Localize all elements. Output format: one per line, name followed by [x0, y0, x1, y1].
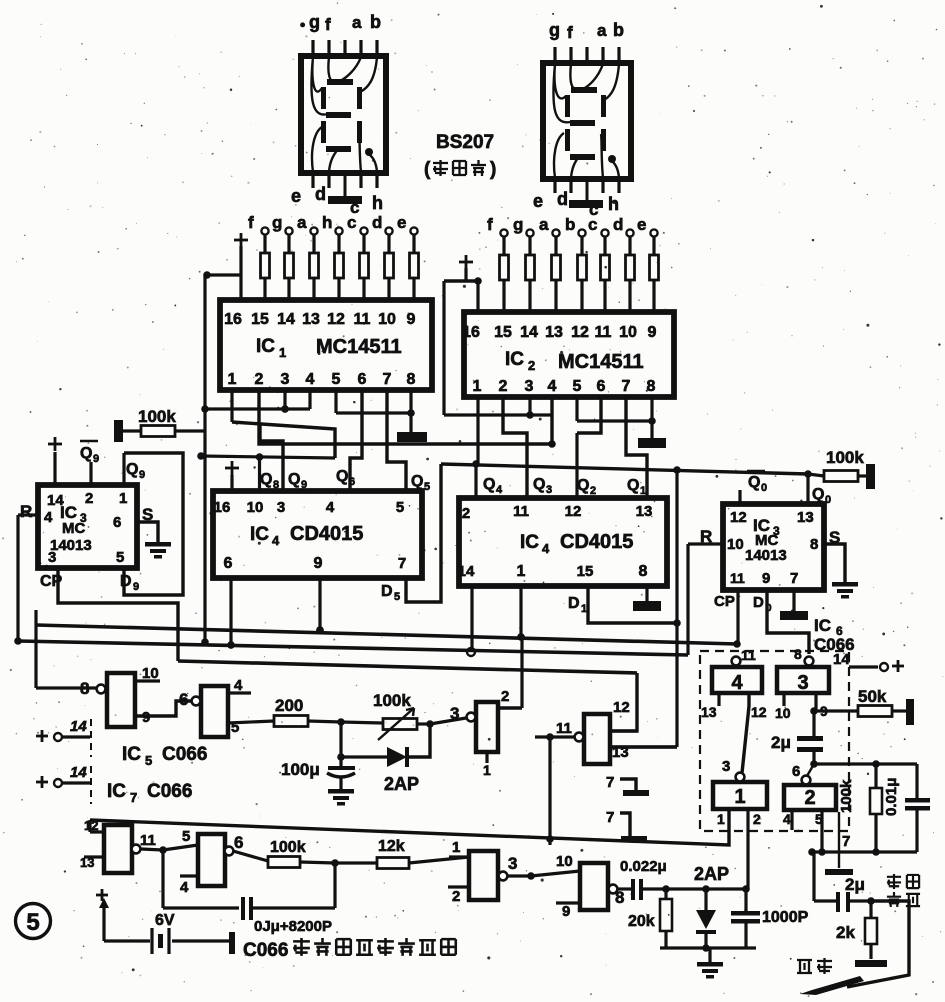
svg-text:100k: 100k [270, 839, 306, 856]
svg-text:C066: C066 [162, 744, 207, 765]
svg-text:3: 3 [450, 704, 459, 723]
svg-text:D: D [753, 594, 764, 611]
svg-text:IC: IC [250, 524, 269, 545]
svg-text:1: 1 [119, 490, 127, 507]
gate IC7a body [90, 830, 104, 833]
svg-text:3: 3 [797, 672, 808, 694]
DS2 top pins [553, 47, 556, 64]
svg-text:2μ: 2μ [845, 875, 865, 894]
svg-text:12: 12 [327, 311, 345, 328]
svg-text:MC: MC [62, 520, 85, 537]
probe symbol (Chinese label + tip) [797, 960, 812, 973]
IC3b /Q0 pin12 stub [738, 490, 741, 504]
svg-text:a: a [539, 215, 549, 234]
svg-text:e: e [637, 215, 646, 234]
svg-text:16: 16 [214, 499, 231, 516]
svg-text:16: 16 [224, 311, 242, 328]
wire IC2 pin6 to Q2 [577, 396, 601, 433]
svg-text:14: 14 [277, 311, 295, 328]
svg-text:Q: Q [748, 474, 760, 491]
svg-text:12: 12 [751, 704, 767, 720]
svg-text:2: 2 [804, 787, 815, 809]
svg-text:12: 12 [730, 509, 747, 526]
svg-text:13: 13 [701, 704, 717, 720]
svg-text:1: 1 [734, 786, 745, 808]
IC5c pin1 stub [485, 752, 488, 763]
svg-text:MC14511: MC14511 [558, 351, 644, 373]
svg-text:20k: 20k [628, 913, 655, 930]
ground under IC2 pin8 [650, 421, 653, 438]
svg-text:Q: Q [126, 461, 138, 478]
segment resistor R1a (f) above IC1 [261, 227, 268, 234]
IC6 dashed boundary box [700, 651, 849, 831]
svg-text:9: 9 [133, 581, 139, 593]
svg-text:1000P: 1000P [762, 909, 809, 926]
svg-text:13: 13 [545, 324, 563, 341]
svg-text:e: e [533, 191, 543, 211]
svg-text:2AP: 2AP [384, 774, 419, 794]
svg-text:(: ( [424, 159, 431, 180]
rail from C2 node to filters [814, 762, 876, 765]
capacitor C4 0.1u+8200P osc feedback [161, 850, 164, 908]
terminal +14 (IC5 pin14) [36, 735, 48, 738]
svg-text:5: 5 [573, 378, 582, 395]
svg-text:13: 13 [80, 855, 94, 870]
wire VR node to gate IC5c [430, 718, 466, 724]
svg-text:15: 15 [251, 311, 269, 328]
wire bus B to IC5a pin8 [36, 686, 96, 689]
svg-text:10: 10 [247, 499, 264, 516]
svg-text:16: 16 [462, 324, 480, 341]
svg-text:4: 4 [731, 672, 743, 694]
DS2 internal lead curves [553, 64, 619, 122]
svg-text:b: b [565, 215, 575, 234]
svg-text:9: 9 [314, 555, 323, 572]
svg-text:100k: 100k [373, 691, 411, 710]
svg-text:4: 4 [234, 677, 243, 694]
IC6-3 pin10 stub [782, 693, 785, 706]
svg-text:11: 11 [140, 832, 156, 849]
IC U4b (IC4 CD4015 right) body [459, 498, 667, 586]
junction IC5d riser on IC7 bus [546, 835, 554, 843]
IC3a pin2 /Q9 input [89, 462, 92, 485]
svg-text:1: 1 [473, 378, 482, 395]
svg-text:6V: 6V [155, 912, 175, 929]
ground under IC1 pin8 [409, 413, 412, 432]
segment resistor R1e (c) above IC1 [360, 227, 367, 234]
svg-text:8: 8 [615, 888, 624, 907]
svg-text:4: 4 [306, 371, 315, 388]
svg-text:IC: IC [107, 781, 126, 802]
svg-text:7: 7 [790, 570, 798, 587]
svg-text:0.022μ: 0.022μ [620, 858, 667, 875]
svg-text:15: 15 [494, 324, 512, 341]
segment resistor R1c (a) above IC1 [310, 227, 317, 234]
IC3a Q9 feedback loop pin1 to pin5 D9 [122, 453, 125, 485]
IC5d input riser from IC7 bus [548, 737, 551, 845]
svg-text:CP: CP [714, 593, 735, 610]
svg-text:4: 4 [44, 509, 53, 526]
svg-text:f: f [325, 15, 331, 34]
DS1 common-cathode ground [344, 172, 347, 196]
svg-text:5: 5 [26, 909, 39, 936]
battery B1 6V [96, 894, 108, 897]
svg-text:h: h [608, 194, 619, 214]
IC1 Vdd + terminal [234, 239, 248, 242]
svg-text:10: 10 [378, 311, 396, 328]
wire IC2 pins3,4 +V link [444, 413, 552, 416]
svg-text:Q: Q [411, 473, 423, 490]
svg-text:f: f [248, 213, 254, 232]
IC4a + terminal above pin16 [225, 467, 239, 470]
svg-text:C066: C066 [243, 940, 288, 961]
DS1 top pins [311, 40, 314, 57]
wire IC7 feedback long bus [90, 809, 729, 845]
svg-text:14: 14 [458, 563, 475, 580]
svg-text:3: 3 [48, 549, 56, 566]
svg-text:Q: Q [533, 476, 545, 493]
svg-text:1: 1 [452, 839, 460, 856]
svg-text:8: 8 [647, 378, 656, 395]
svg-text:f: f [567, 23, 573, 42]
segment resistor R2f (d) above IC2 [626, 229, 633, 236]
svg-text:200: 200 [275, 696, 303, 715]
ground rail bottom [660, 946, 756, 949]
7-segment display DS1 (BS207) body [301, 56, 386, 173]
svg-text:CD4015: CD4015 [560, 531, 633, 553]
svg-text:a: a [597, 21, 607, 40]
svg-text:IC: IC [814, 616, 831, 635]
svg-text:11: 11 [354, 311, 371, 328]
IC3b Q0 pin13 stub to data line [806, 474, 809, 504]
svg-text:9: 9 [139, 469, 145, 481]
svg-text:8: 8 [810, 536, 818, 553]
svg-text:): ) [490, 159, 496, 180]
svg-text:IC: IC [520, 532, 539, 553]
svg-text:13: 13 [797, 509, 814, 526]
svg-text:8: 8 [639, 563, 648, 580]
svg-text:5: 5 [145, 753, 152, 768]
svg-text:2: 2 [753, 811, 761, 827]
wire trunk Q0 to gate D pin13 [675, 470, 678, 747]
segment resistor R2a (f) above IC2 [500, 229, 507, 236]
svg-text:10: 10 [619, 324, 637, 341]
gate IC5b body [201, 686, 228, 737]
svg-text:10: 10 [775, 705, 791, 721]
svg-text:3: 3 [508, 854, 517, 873]
IC5a pin10 stub [135, 679, 160, 682]
svg-text:6: 6 [349, 476, 355, 488]
svg-text:b: b [613, 20, 624, 40]
svg-text:12k: 12k [378, 838, 405, 855]
svg-text:9: 9 [93, 453, 99, 465]
svg-text:9: 9 [762, 570, 770, 587]
svg-text:2: 2 [499, 378, 508, 395]
svg-text:2: 2 [501, 688, 509, 705]
svg-text:0: 0 [825, 494, 831, 506]
DS1 bottom pins [311, 172, 314, 188]
svg-text:100μ: 100μ [281, 760, 320, 779]
DS1 segments [327, 79, 353, 85]
svg-text:4: 4 [180, 879, 189, 896]
svg-text:4: 4 [272, 533, 280, 548]
wire CD4015 IC4a pin10 (Q8) stub [258, 457, 261, 491]
IC4b pin1 clock stub [519, 586, 522, 637]
svg-text:4: 4 [326, 499, 335, 516]
svg-text:CD4015: CD4015 [290, 523, 363, 545]
segment resistor R1d (h) above IC1 [335, 227, 342, 234]
IC5b pin4 stub [228, 691, 251, 694]
svg-text:2μ: 2μ [771, 733, 791, 752]
wire reset bus down from 100k node [203, 457, 206, 642]
svg-text:Q: Q [483, 476, 495, 493]
ground rail lower right [812, 850, 917, 853]
svg-text:d: d [372, 213, 382, 232]
svg-text:g: g [272, 213, 282, 232]
svg-text:1: 1 [717, 811, 725, 827]
svg-text:10: 10 [556, 853, 573, 870]
7-segment display DS2 (BS207) body [543, 63, 631, 179]
wire IC2 pin2 to Q3 [503, 396, 527, 498]
wire 100k reset node horizontal [201, 456, 335, 458]
svg-text:2: 2 [462, 505, 470, 522]
svg-text:6: 6 [792, 763, 800, 780]
wire bus D (CP chain) [178, 661, 637, 673]
svg-text:1: 1 [483, 762, 491, 778]
svg-text:Q: Q [288, 471, 300, 488]
svg-text:8: 8 [407, 371, 416, 388]
IC3b pin7 grounded [792, 590, 795, 611]
svg-text:1: 1 [279, 345, 286, 360]
IC6-2 pin5 riser [820, 810, 823, 852]
svg-text:11: 11 [741, 647, 756, 663]
svg-text:7: 7 [130, 790, 137, 805]
svg-text:10: 10 [142, 665, 159, 682]
page number 5 circled [16, 904, 51, 939]
svg-text:5: 5 [424, 481, 430, 493]
gate IC6-3 body [777, 667, 829, 693]
svg-text:1: 1 [228, 371, 237, 388]
svg-text:100k: 100k [838, 779, 855, 813]
IC U3a (IC3 MC14013 left) body [38, 485, 137, 568]
svg-text:C066: C066 [147, 781, 192, 802]
svg-text:2: 2 [452, 888, 460, 905]
DS2 bottom pins [553, 178, 556, 193]
svg-text:12: 12 [84, 818, 98, 833]
svg-text:9: 9 [407, 311, 416, 328]
svg-text:f: f [487, 215, 493, 234]
svg-text:Q: Q [260, 471, 272, 488]
svg-text:1: 1 [517, 563, 526, 580]
svg-text:0: 0 [761, 482, 767, 494]
svg-text:7: 7 [398, 555, 406, 572]
gate IC6-2 body [784, 785, 836, 810]
svg-text:2: 2 [255, 371, 264, 388]
gate IC7b body [163, 845, 198, 850]
svg-text:5: 5 [396, 499, 404, 516]
wire IC1 pin2 +V crosslink to IC2 pins 3,4 [259, 390, 552, 444]
svg-text:5: 5 [182, 828, 190, 845]
svg-text:4: 4 [542, 541, 550, 556]
svg-text:IC: IC [122, 744, 141, 765]
svg-text:6: 6 [358, 371, 367, 388]
svg-text:12: 12 [571, 324, 589, 341]
svg-text:d: d [315, 184, 326, 204]
svg-text:11: 11 [513, 503, 529, 520]
svg-text:6: 6 [179, 690, 188, 709]
gate IC7c body [449, 855, 469, 858]
svg-text:8: 8 [794, 646, 802, 662]
svg-text:9: 9 [648, 324, 657, 341]
DS2 common-cathode ground [586, 178, 589, 201]
svg-text:5: 5 [332, 371, 341, 388]
svg-text:2: 2 [85, 490, 93, 507]
svg-text:3: 3 [281, 371, 290, 388]
svg-text:7: 7 [383, 371, 392, 388]
svg-text:6: 6 [113, 514, 121, 531]
svg-text:6: 6 [597, 378, 606, 395]
wire left +V bus of IC1 [203, 275, 206, 457]
wire IC2 pin16 supply loop [444, 279, 478, 282]
IC2 Vdd + terminal [459, 261, 473, 264]
svg-text:6: 6 [224, 555, 233, 572]
svg-text:7: 7 [622, 378, 631, 395]
segment resistor R2g (e) above IC2 [650, 229, 657, 236]
svg-text:2: 2 [528, 358, 535, 373]
svg-text:4: 4 [496, 484, 503, 496]
svg-text:10: 10 [727, 536, 744, 553]
svg-text:IC: IC [256, 336, 275, 357]
DS1 internal lead curves [311, 57, 377, 115]
wire IC1 pin6 to Q6 [350, 390, 362, 491]
svg-text:7: 7 [606, 774, 614, 791]
svg-text:50k: 50k [858, 687, 887, 706]
svg-text:e: e [397, 213, 406, 232]
IC4a pin9 clock stub [318, 578, 321, 630]
svg-text:Q: Q [577, 477, 589, 494]
svg-text:3: 3 [722, 758, 730, 775]
svg-text:5: 5 [116, 549, 124, 566]
IC6-2 pin4 stub [790, 810, 793, 830]
svg-text:g: g [513, 215, 523, 234]
segment resistor R2d (b) above IC2 [578, 229, 585, 236]
wire IC1 pin16 to left bus [205, 273, 241, 276]
IC U4a (IC4 CD4015 left) body [213, 491, 422, 578]
svg-text:5: 5 [815, 811, 823, 827]
segment resistor R2e (c) above IC2 [601, 229, 608, 236]
segment resistor R1g (e) above IC1 [410, 227, 417, 234]
svg-text:11: 11 [595, 324, 612, 341]
svg-text:15: 15 [577, 563, 594, 580]
svg-text:Q: Q [812, 486, 824, 503]
svg-text:h: h [372, 193, 383, 213]
terminal +14 (IC7 pin14) [36, 781, 48, 784]
svg-text:14: 14 [70, 718, 87, 735]
wire to probe [847, 901, 909, 987]
svg-text:12: 12 [565, 503, 582, 520]
IC U1 (IC1 MC14511) body [220, 300, 432, 390]
svg-text:13: 13 [302, 311, 320, 328]
svg-text:14: 14 [520, 324, 538, 341]
wire bus C (reset net) [18, 641, 688, 655]
svg-text:D: D [568, 595, 580, 612]
svg-text:D: D [120, 573, 132, 590]
svg-text:8: 8 [273, 479, 279, 491]
IC4b Q4 stub to data line [474, 464, 477, 498]
svg-text:0Jμ+8200P: 0Jμ+8200P [254, 918, 332, 935]
svg-text:14: 14 [70, 764, 87, 781]
svg-text:9: 9 [562, 903, 570, 920]
svg-text:1: 1 [640, 485, 646, 497]
svg-text:Q: Q [80, 445, 92, 462]
svg-text:7: 7 [842, 833, 850, 850]
gate IC6-1 body [713, 782, 767, 809]
svg-text:6: 6 [234, 833, 243, 852]
wire IC2 pin1 to Q4 node [476, 396, 479, 464]
gate IC6-4 body [712, 667, 762, 693]
IC4b pin14 reset stub with terminal [470, 586, 473, 648]
svg-text:1: 1 [581, 603, 587, 615]
svg-text:a: a [297, 213, 307, 232]
svg-text:IC: IC [505, 349, 524, 370]
svg-text:•: • [300, 17, 305, 34]
IC6-4 pin13 stub [717, 693, 720, 706]
wire IC2 pin7 to Q1 [626, 396, 647, 498]
svg-text:c: c [347, 213, 356, 232]
gate IC5c body [476, 702, 498, 752]
segment resistor R2c (a) above IC2 [552, 229, 559, 236]
wire data line Q4/D5/Q0 [441, 464, 808, 474]
segment resistor R2b (g) above IC2 [526, 229, 533, 236]
svg-text:a: a [352, 13, 362, 32]
svg-text:d: d [557, 189, 568, 209]
segment resistor R1b (g) above IC1 [285, 227, 292, 234]
IC U2 (IC2 MC14511) body [464, 312, 674, 397]
label signal input (Chinese) [887, 874, 901, 889]
svg-text:100k: 100k [138, 407, 176, 426]
wire IC2 pin5+pin8 ground link [575, 396, 578, 421]
ground under IC4b pin8 [645, 586, 648, 601]
segment resistor R1f (d) above IC1 [385, 227, 392, 234]
gate IC5a body [107, 673, 135, 727]
svg-text:4: 4 [783, 811, 791, 827]
svg-text:d: d [613, 215, 623, 234]
svg-text:c: c [588, 215, 597, 234]
svg-text:h: h [322, 213, 332, 232]
svg-text:5: 5 [394, 591, 400, 603]
IC U3b (IC3 MC14013 right) body [723, 504, 824, 590]
wire pin3 tap (Q9) jog [260, 424, 283, 491]
svg-text:3: 3 [546, 484, 552, 496]
svg-text:12: 12 [613, 699, 630, 716]
gate IC5d body [584, 714, 610, 764]
svg-text:100k: 100k [826, 448, 864, 467]
svg-text:14013: 14013 [745, 547, 787, 564]
svg-text:MC14511: MC14511 [316, 336, 402, 358]
svg-text:Q: Q [336, 468, 348, 485]
svg-text:Q: Q [627, 477, 639, 494]
svg-text:g: g [309, 12, 320, 32]
svg-text:2k: 2k [836, 923, 855, 942]
svg-text:2AP: 2AP [694, 864, 729, 884]
svg-text:3: 3 [277, 499, 285, 516]
svg-text:0.01μ: 0.01μ [883, 778, 900, 816]
svg-text:13: 13 [636, 503, 653, 520]
wire IC1 pin1 to CD4015 pin3 tap [230, 390, 233, 422]
svg-text:b: b [370, 12, 381, 32]
svg-text:2: 2 [590, 485, 596, 497]
svg-text:D: D [381, 583, 393, 600]
